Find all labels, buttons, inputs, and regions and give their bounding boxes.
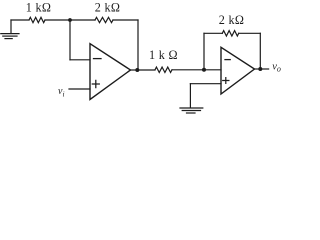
wire	[69, 20, 71, 60]
svg-text:vi: vi	[58, 86, 65, 98]
op-amp U1	[90, 44, 131, 100]
wire	[70, 59, 90, 61]
wire	[131, 69, 156, 71]
resistor R1	[29, 17, 45, 22]
node out	[258, 67, 262, 71]
wire	[204, 32, 222, 34]
wire	[69, 88, 90, 90]
svg-text:1 k Ω: 1 k Ω	[149, 48, 178, 62]
node A	[68, 18, 72, 22]
wire	[259, 33, 261, 69]
svg-text:1 kΩ: 1 kΩ	[26, 0, 52, 14]
wire	[11, 19, 29, 21]
wire	[203, 33, 205, 70]
resistor R2	[95, 17, 113, 22]
wire	[239, 32, 261, 34]
wire	[70, 19, 95, 21]
wire	[45, 19, 70, 21]
ground	[180, 84, 203, 113]
op-amp U2	[221, 47, 255, 94]
wire	[255, 68, 269, 70]
resistor R4	[222, 31, 238, 36]
wire	[190, 83, 221, 85]
wire	[113, 19, 138, 21]
svg-text:2 kΩ: 2 kΩ	[219, 13, 245, 27]
resistor R3	[155, 67, 172, 72]
node	[135, 68, 139, 72]
ground	[1, 20, 19, 39]
svg-text:2 kΩ: 2 kΩ	[95, 0, 121, 14]
wire	[137, 20, 139, 70]
svg-text:vo: vo	[272, 61, 281, 73]
node B	[202, 68, 206, 72]
wire	[172, 69, 221, 71]
